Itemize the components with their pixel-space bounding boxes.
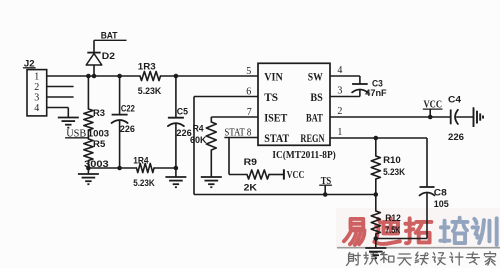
svg-text:R10: R10 [383, 155, 401, 165]
svg-text:SW: SW [308, 72, 323, 84]
svg-text:4: 4 [337, 65, 342, 76]
svg-text:2K: 2K [244, 182, 258, 192]
svg-text:1R3: 1R3 [138, 61, 156, 71]
svg-text:VCC: VCC [424, 99, 443, 110]
svg-text:5: 5 [246, 66, 251, 77]
svg-text:2: 2 [337, 106, 342, 117]
svg-text:5.23K: 5.23K [133, 178, 155, 188]
svg-text:3: 3 [337, 86, 342, 97]
svg-text:105: 105 [434, 199, 449, 209]
svg-text:D2: D2 [102, 50, 115, 61]
svg-text:C5: C5 [177, 107, 188, 117]
svg-text:R3: R3 [93, 108, 105, 118]
svg-text:STAT 8: STAT 8 [224, 128, 251, 139]
svg-text:IC(MT2011-8P): IC(MT2011-8P) [272, 150, 335, 161]
svg-text:R9: R9 [244, 157, 257, 167]
svg-text:VIN: VIN [264, 72, 283, 84]
svg-text:R12: R12 [385, 213, 401, 223]
svg-text:7: 7 [247, 107, 252, 118]
svg-text:C4: C4 [448, 94, 462, 104]
svg-text:4: 4 [34, 103, 39, 114]
svg-text:7.5K: 7.5K [385, 225, 400, 235]
svg-text:60K: 60K [190, 135, 207, 145]
svg-text:5.23K: 5.23K [138, 86, 162, 96]
svg-text:C22: C22 [121, 104, 135, 114]
svg-text:2: 2 [34, 82, 39, 93]
svg-text:ISET: ISET [264, 113, 287, 125]
svg-text:1: 1 [34, 71, 39, 82]
svg-text:BS: BS [310, 92, 322, 104]
svg-text:J2: J2 [24, 57, 35, 68]
svg-text:C8: C8 [434, 187, 447, 197]
svg-text:STAT: STAT [264, 133, 289, 145]
svg-text:3: 3 [34, 92, 39, 103]
svg-text:1003: 1003 [88, 129, 109, 139]
svg-text:TS: TS [264, 92, 278, 104]
svg-text:BAT: BAT [306, 113, 323, 125]
svg-text:1: 1 [337, 127, 342, 138]
svg-text:6: 6 [246, 87, 251, 98]
svg-text:R5: R5 [93, 139, 105, 149]
svg-text:226: 226 [120, 124, 135, 134]
svg-text:REGN: REGN [300, 133, 325, 145]
svg-text:226: 226 [448, 132, 464, 142]
svg-text:VCC: VCC [287, 170, 305, 181]
svg-text:5.23K: 5.23K [383, 167, 405, 177]
svg-text:47nF: 47nF [365, 88, 387, 98]
svg-text:BAT: BAT [101, 30, 118, 41]
svg-text:1R4: 1R4 [133, 155, 149, 165]
